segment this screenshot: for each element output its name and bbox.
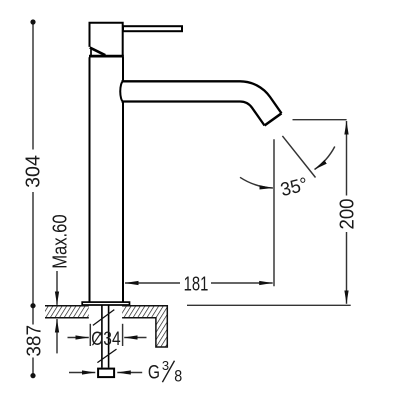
head/body junction thick bar xyxy=(89,55,124,58)
body left edge xyxy=(89,57,91,302)
lever handle xyxy=(123,26,182,31)
svg-text:200: 200 xyxy=(337,198,359,229)
O34 right tick xyxy=(122,324,124,346)
base flange xyxy=(82,302,129,305)
35 degree axis diagonal line xyxy=(282,136,315,178)
threaded rod left line xyxy=(101,306,103,368)
deck top extension line xyxy=(187,304,351,306)
svg-text:387: 387 xyxy=(23,325,46,357)
wire segment 304 lower xyxy=(32,192,34,306)
dimension 304/387 shared vertical line xyxy=(32,22,34,376)
deck left section (hatched) xyxy=(45,306,89,318)
wire segment 387 lower xyxy=(32,358,34,376)
spout bottom line and inner curve xyxy=(122,101,265,125)
rod break slash upper xyxy=(93,310,114,326)
wire segment 304 upper xyxy=(32,22,34,150)
node dot top xyxy=(30,19,35,24)
head tilt wedge vertical xyxy=(90,49,92,56)
dimension O34 left arrow xyxy=(68,337,89,339)
spout tip edge xyxy=(265,113,282,125)
rod break slash lower xyxy=(97,349,116,363)
body right edge upper xyxy=(122,57,124,80)
dimension 181 right segment xyxy=(211,282,273,284)
dimension 200 lower arrow xyxy=(346,232,348,304)
svg-text:181: 181 xyxy=(184,272,209,295)
spout tip extension line xyxy=(273,139,275,286)
dimension G3/8 right arrow xyxy=(117,372,142,374)
threaded rod right line xyxy=(108,306,110,368)
spout xyxy=(120,81,281,125)
dimension Max.60 upper arrow xyxy=(56,271,58,305)
dimension G3/8 left arrow xyxy=(69,372,95,374)
svg-text:G: G xyxy=(148,361,160,383)
svg-text:8: 8 xyxy=(174,367,182,385)
wire segment 387 upper xyxy=(32,306,34,325)
node dot deck xyxy=(30,303,35,308)
O34 left tick xyxy=(89,324,91,346)
fraction slash xyxy=(162,361,174,383)
body right edge lower xyxy=(122,102,124,301)
outlet height extension line xyxy=(293,119,347,121)
dimension 181 left segment xyxy=(125,282,180,284)
dimension 200 upper arrow xyxy=(346,121,348,196)
node dot bottom xyxy=(30,373,35,378)
supply nut xyxy=(98,369,114,378)
svg-text:Ø34: Ø34 xyxy=(91,327,121,349)
spout left cap arc xyxy=(120,81,123,101)
svg-text:Max.60: Max.60 xyxy=(48,214,71,268)
svg-text:304: 304 xyxy=(22,155,44,188)
curved arrow right xyxy=(315,147,335,170)
dimension Max.60 lower arrow xyxy=(56,319,58,353)
curved arrow left xyxy=(240,177,273,188)
dimension O34 right arrow xyxy=(124,337,146,339)
head tilt wedge diagonal xyxy=(90,48,106,56)
faucet body column xyxy=(90,57,124,302)
spout top line and outer curve xyxy=(122,81,282,113)
head (cartridge cap) xyxy=(90,23,123,55)
deck right L-section (hatched) xyxy=(122,306,167,347)
